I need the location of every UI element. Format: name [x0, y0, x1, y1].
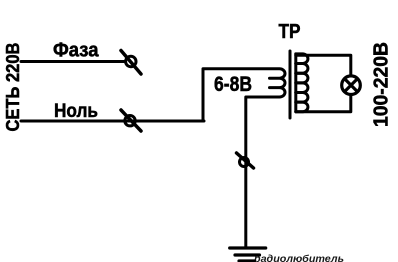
svg-text:6-8В: 6-8В — [214, 73, 252, 96]
svg-text:радиолюбитель: радиолюбитель — [253, 253, 344, 262]
svg-text:100-220В: 100-220В — [370, 42, 393, 127]
svg-text:ТР: ТР — [279, 21, 301, 43]
svg-text:СЕТЬ 220В: СЕТЬ 220В — [3, 42, 23, 131]
svg-text:Фаза: Фаза — [53, 39, 99, 62]
svg-text:Ноль: Ноль — [54, 100, 98, 122]
